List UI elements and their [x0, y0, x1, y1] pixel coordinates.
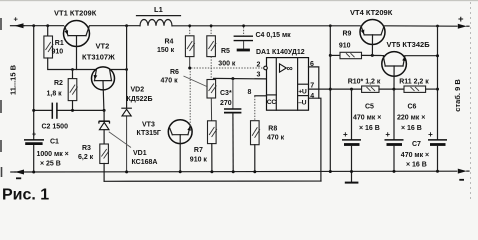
- resistor R1: [47, 26, 49, 36]
- svg-text:C2 1500: C2 1500: [42, 123, 69, 130]
- svg-text:R9: R9: [343, 30, 352, 37]
- svg-text:C3*: C3*: [220, 90, 232, 97]
- svg-text:R1: R1: [55, 40, 64, 47]
- svg-text:КТ3107Ж: КТ3107Ж: [82, 53, 115, 62]
- node: VT4 base / R9 / VT5 collector: [371, 54, 374, 57]
- wire: VT3 collector vertical (to pin2 node): [189, 68, 191, 126]
- svg-text:C5: C5: [365, 104, 374, 111]
- svg-text:R7: R7: [194, 147, 203, 154]
- callout line VD1: [109, 132, 131, 148]
- output terminal + (top right): [458, 24, 467, 29]
- transistor VT4 KT209K (PNP): [360, 20, 385, 45]
- transistor VT3 KT315G (NPN): [168, 120, 192, 144]
- wire: left branch vertical: [33, 26, 35, 140]
- svg-text:C6: C6: [408, 104, 417, 111]
- svg-text:R2: R2: [54, 80, 63, 87]
- svg-text:R11 2,2 к: R11 2,2 к: [399, 79, 429, 86]
- svg-text:1,8 к: 1,8 к: [47, 91, 63, 98]
- svg-text:–U: –U: [298, 100, 306, 107]
- resistor R4: [189, 27, 191, 36]
- svg-text:R4: R4: [165, 38, 174, 45]
- svg-text:КД522Б: КД522Б: [127, 96, 153, 103]
- svg-text:470 к: 470 к: [267, 135, 285, 142]
- pin 8 wire: [255, 95, 267, 97]
- svg-text:300 к: 300 к: [218, 61, 236, 68]
- svg-text:+: +: [32, 132, 36, 139]
- scan edge marks left: [0, 18, 3, 177]
- capacitor C3* 270: [232, 79, 234, 109]
- diode VD2 KD522B: [122, 107, 131, 109]
- wire: rail VT1 to L1: [90, 25, 141, 27]
- svg-text:CC: CC: [267, 99, 277, 106]
- svg-text:R5: R5: [221, 48, 230, 55]
- svg-text:+: +: [385, 130, 390, 139]
- svg-text:270: 270: [220, 100, 232, 107]
- wire: pin 3 net: [214, 77, 267, 80]
- svg-text:DA1 К140УД12: DA1 К140УД12: [256, 49, 305, 56]
- pin 4 wire: [309, 98, 321, 181]
- svg-text:C1: C1: [50, 139, 59, 146]
- svg-text:∞: ∞: [287, 63, 293, 73]
- svg-text:+: +: [14, 15, 19, 24]
- transistor VT5 KT342B (NPN): [382, 52, 407, 77]
- capacitor C2 1500: [51, 103, 53, 119]
- wire: VT5 emitter to output node: [405, 55, 438, 57]
- svg-text:6,2 к: 6,2 к: [78, 154, 94, 161]
- wire: bottom rail: [15, 170, 457, 173]
- svg-text:C4 0,15 мк: C4 0,15 мк: [256, 32, 292, 39]
- wire: R5 to R6: [210, 57, 212, 80]
- capacitor C5 470mk x16V: [351, 89, 353, 139]
- svg-text:470 к: 470 к: [161, 78, 179, 85]
- svg-text:+: +: [428, 130, 433, 139]
- svg-text:VT4 КТ209К: VT4 КТ209К: [350, 8, 393, 17]
- svg-text:910: 910: [339, 42, 351, 49]
- svg-text:R3: R3: [82, 145, 91, 152]
- capacitor C1 1000mk x 25V: [24, 139, 44, 141]
- svg-text:КС168А: КС168А: [132, 159, 158, 166]
- svg-text:+U: +U: [298, 88, 307, 95]
- svg-text:× 16 В: × 16 В: [406, 162, 427, 169]
- svg-text:VT3: VT3: [142, 122, 155, 129]
- wire: R6 to R7: [210, 98, 212, 121]
- transistor VT2 KT3107Zh (PNP): [92, 67, 115, 90]
- resistor R8: [254, 96, 256, 121]
- wire: top rail L1 to VT4: [172, 25, 360, 27]
- wire: unregulated branch x=330: [329, 26, 331, 172]
- node: rail / VD2 branch: [125, 24, 128, 27]
- svg-text:910: 910: [52, 49, 64, 56]
- capacitor C6 220mk x16V: [393, 89, 395, 139]
- svg-text:R10* 1,2 к: R10* 1,2 к: [348, 79, 381, 86]
- inductor L1: [140, 19, 172, 25]
- resistor R3: [100, 144, 109, 164]
- wire: top rail VT4 to output: [385, 25, 457, 27]
- node: rail / R1: [46, 24, 49, 27]
- svg-text:VD2: VD2: [131, 87, 145, 94]
- resistor R7: [208, 121, 217, 144]
- svg-text:150 к: 150 к: [157, 47, 175, 54]
- wire: R1 bottom to base wire: [48, 58, 96, 70]
- svg-text:C7: C7: [412, 141, 421, 148]
- node: VT1 base junction: [71, 68, 74, 71]
- node: rail / left branch: [32, 24, 35, 27]
- svg-text:R8: R8: [268, 126, 277, 133]
- callout line R6: [184, 76, 207, 87]
- svg-text:910 к: 910 к: [190, 156, 208, 163]
- svg-text:Рис. 1: Рис. 1: [2, 187, 49, 204]
- input terminal + (top left): [11, 15, 25, 29]
- svg-text:VT5 КТ342Б: VT5 КТ342Б: [387, 40, 431, 49]
- pin 6 wire: [309, 67, 319, 98]
- wire: feedback row y=89: [330, 88, 361, 90]
- svg-text:220 мк ×: 220 мк ×: [397, 114, 425, 121]
- wire: top rail input segment: [23, 25, 64, 27]
- wire: -U lower rail: [104, 180, 321, 182]
- svg-text:+: +: [458, 14, 464, 25]
- minus mark left: [16, 177, 21, 179]
- svg-text:2: 2: [257, 62, 261, 69]
- svg-text:6: 6: [310, 61, 314, 68]
- resistor R2: [72, 70, 74, 79]
- wire: C2 row: [34, 109, 53, 111]
- svg-text:× 16 В: × 16 В: [359, 125, 380, 132]
- svg-text:+: +: [343, 130, 348, 139]
- svg-text:× 16 В: × 16 В: [401, 125, 422, 132]
- pin 2 inversion circle: [264, 66, 268, 70]
- svg-text:7: 7: [310, 82, 314, 89]
- svg-text:L1: L1: [154, 5, 163, 14]
- svg-text:470 мк ×: 470 мк ×: [353, 114, 381, 121]
- transistor VT1 KT209K (PNP): [64, 21, 90, 47]
- scan border right: [470, 2, 472, 202]
- resistor R11 2,2k: [404, 86, 426, 92]
- svg-text:VD1: VD1: [133, 150, 147, 157]
- svg-text:3: 3: [257, 71, 261, 78]
- wire: output vertical: [437, 26, 439, 139]
- svg-text:1000 мк ×: 1000 мк ×: [37, 151, 69, 158]
- svg-text:4: 4: [310, 93, 314, 100]
- svg-text:470 мк ×: 470 мк ×: [401, 152, 429, 159]
- svg-text:8: 8: [248, 89, 252, 96]
- pin 7 wire: [309, 88, 331, 90]
- resistor R6: [207, 80, 216, 99]
- output terminal - (bottom right): [458, 169, 467, 174]
- wire: VD2 branch vertical: [126, 26, 128, 108]
- scan border top: [0, 0, 478, 2]
- svg-text:КТ315Г: КТ315Г: [137, 130, 161, 137]
- bottom rail junction dots: [32, 171, 35, 174]
- svg-text:стаб. 9 В: стаб. 9 В: [453, 79, 462, 112]
- svg-text:VT1 КТ209К: VT1 КТ209К: [54, 9, 97, 18]
- resistor R9: [330, 54, 340, 56]
- svg-text:× 25 В: × 25 В: [40, 160, 61, 167]
- wire: pin 2 net to op-amp: [191, 67, 264, 69]
- svg-text:VT2: VT2: [96, 42, 110, 51]
- node: pin2 net: [188, 67, 191, 70]
- resistor R5: [210, 27, 212, 36]
- zener VD1 KS168A: [103, 110, 105, 121]
- capacitor C7 470mk x16V: [428, 139, 447, 141]
- svg-text:11...15 В: 11...15 В: [9, 64, 18, 95]
- svg-text:R6: R6: [170, 69, 179, 76]
- wire: VT2 collector to VD2 line: [110, 69, 127, 71]
- wire: R10 to R11: [379, 88, 404, 90]
- capacitor C4 0,15mk: [243, 27, 245, 36]
- resistor R10* 1,2k: [362, 86, 379, 92]
- node: VD2 line junction: [125, 68, 128, 71]
